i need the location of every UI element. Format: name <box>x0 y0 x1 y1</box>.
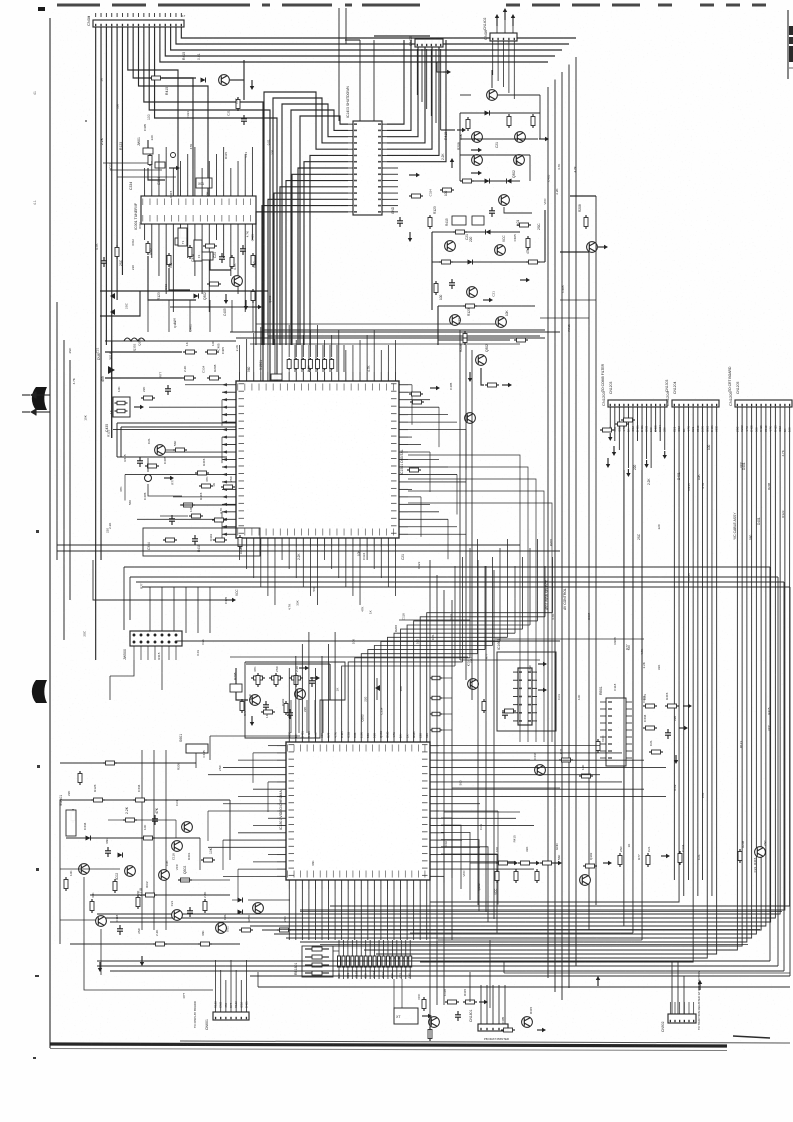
svg-text:4.1: 4.1 <box>33 200 37 205</box>
svg-text:41: 41 <box>33 91 37 95</box>
